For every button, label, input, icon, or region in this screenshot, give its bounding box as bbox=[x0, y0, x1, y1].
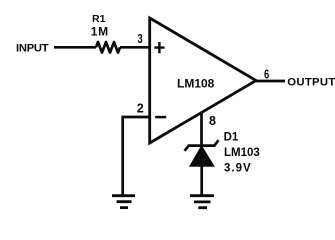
ground (inverting input) bbox=[112, 196, 135, 208]
svg-text:1M: 1M bbox=[91, 24, 109, 38]
svg-text:8: 8 bbox=[209, 114, 216, 128]
resistor R1 designator label bbox=[92, 13, 106, 25]
pin 3 label bbox=[138, 31, 143, 46]
diode D1 part label LM103 bbox=[224, 147, 260, 159]
node INPUT label bbox=[16, 42, 49, 54]
svg-text:OUTPUT: OUTPUT bbox=[287, 76, 335, 88]
svg-text:INPUT: INPUT bbox=[16, 42, 49, 54]
diode D1 designator label bbox=[224, 132, 239, 144]
svg-text:R1: R1 bbox=[92, 13, 106, 25]
wire op-amp pin 2 to ground bbox=[123, 117, 151, 196]
zener diode D1 cathode bar bbox=[185, 140, 219, 151]
svg-text:6: 6 bbox=[264, 67, 269, 82]
op-amp U1 LM108 triangle bbox=[150, 18, 256, 143]
wire resistor R1 to op-amp pin 3 bbox=[120, 46, 150, 49]
pin 6 label bbox=[264, 67, 269, 82]
svg-text:2: 2 bbox=[137, 102, 144, 116]
ground (diode D1) bbox=[190, 196, 214, 208]
wire diode D1 anode to ground bbox=[200, 166, 203, 196]
diode D1 value label 3.9V bbox=[224, 162, 252, 174]
svg-text:3: 3 bbox=[138, 31, 143, 46]
op-amp non-inverting input + symbol bbox=[154, 42, 164, 53]
zener diode D1 anode triangle bbox=[190, 146, 214, 166]
resistor R1 value label 1M bbox=[91, 24, 109, 38]
svg-text:3.9V: 3.9V bbox=[224, 162, 252, 174]
resistor R1 bbox=[96, 42, 120, 53]
node OUTPUT label bbox=[287, 76, 335, 88]
op-amp inverting input - symbol bbox=[155, 116, 166, 119]
wire INPUT to resistor R1 bbox=[54, 46, 96, 49]
pin 8 label bbox=[209, 114, 216, 128]
op-amp U1 part label LM108 bbox=[177, 77, 215, 91]
svg-text:D1: D1 bbox=[224, 132, 239, 144]
svg-text:LM108: LM108 bbox=[177, 77, 215, 91]
pin 2 label bbox=[137, 102, 144, 116]
wire op-amp output pin 6 bbox=[255, 80, 285, 83]
svg-text:LM103: LM103 bbox=[224, 147, 260, 159]
wire op-amp pin 8 to diode D1 bbox=[200, 113, 203, 146]
